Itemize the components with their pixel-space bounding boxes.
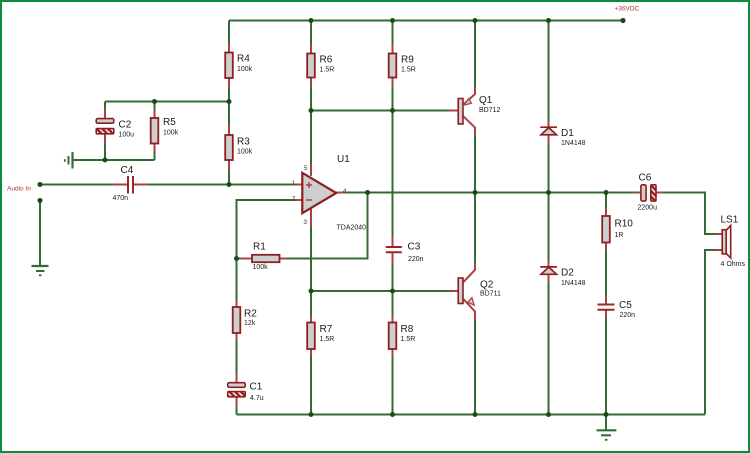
diode D2: [540, 267, 557, 274]
wire D2 to bottom rail: [548, 283, 550, 415]
wire column R6 upper: [310, 21, 312, 45]
wire Q1 base line: [311, 110, 450, 112]
svg-text:R3: R3: [237, 137, 250, 148]
node bottom rail D2 junction: [546, 412, 551, 417]
wire column R9 upper: [392, 21, 394, 45]
svg-text:1.5R: 1.5R: [320, 336, 335, 343]
wire column R4-R3 middle: [228, 88, 230, 125]
wire ground stub bottom: [605, 415, 607, 430]
svg-text:TDA2040: TDA2040: [337, 225, 367, 232]
svg-text:Q1: Q1: [479, 95, 493, 106]
wire input ground drop: [39, 201, 41, 266]
resistor R6 body: [307, 54, 315, 78]
svg-text:4 Ohms: 4 Ohms: [721, 261, 746, 268]
wire input line C4 to op-amp pin1: [147, 184, 295, 186]
svg-text:Q2: Q2: [480, 280, 494, 291]
resistor R9 pin stubs: [392, 44, 394, 87]
wire feedback R1 to output: [287, 193, 368, 259]
svg-text:D2: D2: [561, 268, 574, 279]
resistor R1 pin stubs: [241, 258, 287, 260]
svg-text:R10: R10: [615, 219, 634, 230]
node R1 R2 junction: [234, 256, 239, 261]
resistor R8 body: [389, 323, 397, 350]
svg-text:1.5R: 1.5R: [401, 336, 416, 343]
svg-text:C4: C4: [121, 165, 134, 176]
svg-text:C6: C6: [639, 173, 652, 184]
node bottom rail Q2 junction: [473, 412, 478, 417]
wire R1 left sliver: [237, 258, 242, 260]
node top rail R6 junction: [309, 18, 314, 23]
resistor R3 body: [225, 135, 233, 160]
capacitor C6 left plate: [641, 185, 646, 201]
node output R10 junction: [604, 190, 609, 195]
svg-text:R5: R5: [163, 117, 176, 128]
svg-text:2: 2: [292, 196, 296, 203]
wire Q2 emitter to bottom rail: [474, 320, 476, 415]
diode D1: [540, 127, 557, 135]
svg-text:BD711: BD711: [480, 291, 501, 298]
capacitor C5 pin stubs: [605, 296, 607, 318]
svg-text:4.7u: 4.7u: [250, 395, 264, 402]
resistor R5 body: [151, 118, 159, 144]
resistor R5 pin stubs: [154, 110, 156, 153]
resistor R1 body: [252, 255, 280, 262]
svg-text:220n: 220n: [408, 256, 424, 263]
svg-text:C5: C5: [619, 300, 632, 311]
svg-text:C1: C1: [250, 382, 263, 393]
wire R2 column upper: [236, 259, 238, 300]
wire R9 bottom to C3: [392, 87, 394, 236]
wire Q2 base line: [311, 290, 450, 292]
svg-text:R9: R9: [401, 55, 414, 66]
node R5 top junction: [152, 99, 157, 104]
capacitor C4 plates: [128, 176, 133, 194]
wire ground line to C2: [73, 159, 155, 161]
svg-text:R8: R8: [401, 324, 414, 335]
resistor R4 body: [225, 53, 233, 79]
ground C2 rotated: [71, 152, 73, 169]
svg-text:LS1: LS1: [721, 215, 739, 226]
wire column R3 lower: [228, 170, 230, 185]
svg-text:U1: U1: [337, 154, 350, 165]
speaker LS1 bar: [722, 230, 726, 254]
capacitor C6 right hatched plate: [651, 185, 656, 201]
svg-text:1: 1: [292, 180, 296, 187]
svg-text:2200u: 2200u: [638, 205, 658, 212]
node C2 ground junction: [103, 158, 108, 163]
svg-text:R4: R4: [237, 54, 250, 65]
svg-text:C2: C2: [119, 120, 132, 131]
svg-text:D1: D1: [561, 128, 574, 139]
node R4 R3 R5 junction: [227, 99, 232, 104]
transistor Q2 emitter arrow: [468, 298, 475, 306]
node output D1 junction: [546, 190, 551, 195]
capacitor C3 plates: [386, 247, 402, 252]
wire op-amp pin2 to R2 top: [237, 200, 295, 259]
ground input connector: [32, 265, 49, 267]
resistor R2 pin stubs: [236, 300, 238, 342]
svg-text:R1: R1: [253, 242, 266, 253]
capacitor C1 bottom hatched plate: [228, 392, 246, 397]
svg-text:BD712: BD712: [479, 107, 501, 114]
svg-text:5: 5: [304, 165, 308, 172]
transistor Q1 base bar: [458, 99, 463, 125]
svg-text:100k: 100k: [253, 264, 269, 271]
wire D1 to output line: [548, 144, 550, 193]
svg-text:Audio In: Audio In: [7, 186, 31, 193]
transistor Q1 pin stubs: [450, 88, 476, 135]
resistor R7 pin stubs: [310, 315, 312, 358]
wire output to R10: [605, 193, 607, 208]
svg-text:100u: 100u: [119, 132, 135, 139]
speaker LS1 horn: [726, 225, 731, 258]
capacitor C1 pin stubs: [236, 374, 238, 407]
resistor R8 pin stubs: [392, 315, 394, 358]
node output Q1 junction: [473, 190, 478, 195]
op-amp U1 minus sign: [306, 199, 312, 201]
capacitor C6 pin stubs: [633, 192, 663, 194]
wire C5 to bottom rail: [605, 318, 607, 415]
svg-text:1.5R: 1.5R: [320, 67, 335, 74]
svg-text:220n: 220n: [620, 312, 636, 319]
node bottom rail R7 junction: [309, 412, 314, 417]
svg-text:1N4148: 1N4148: [561, 140, 586, 147]
wire op-amp pin3 down to Q2 base line and R7: [310, 227, 312, 315]
node R3 input junction: [227, 182, 232, 187]
capacitor C2 bottom hatched plate: [96, 129, 114, 134]
wire C1 to bottom rail: [236, 407, 238, 415]
svg-text:470n: 470n: [113, 195, 129, 202]
speaker LS1 pin stubs: [715, 234, 722, 250]
node pin5 base line junction: [309, 108, 314, 113]
wire C2 bottom: [104, 144, 106, 160]
transistor Q2 pin stubs: [450, 263, 476, 320]
svg-text:100k: 100k: [237, 149, 253, 156]
node top rail R9 junction: [390, 18, 395, 23]
transistor Q1 emitter arrow: [464, 99, 472, 106]
capacitor C2 top plate: [96, 119, 114, 124]
svg-text:4: 4: [343, 188, 347, 195]
capacitor C5 plates: [598, 305, 615, 310]
resistor R4 pin stubs: [228, 43, 230, 88]
node audio ground terminal: [38, 198, 43, 203]
diode D2 pin stubs: [548, 260, 550, 284]
svg-text:+36VDC: +36VDC: [615, 6, 640, 13]
resistor R3 pin stubs: [228, 125, 230, 170]
wire C2 R5 top line: [105, 101, 229, 103]
node +36VDC terminal: [620, 18, 625, 23]
wire top rail +36VDC: [229, 20, 623, 22]
svg-text:12k: 12k: [244, 320, 256, 327]
svg-text:3: 3: [303, 219, 307, 226]
node top rail Q1 junction: [473, 18, 478, 23]
wire C2 top stub: [104, 102, 106, 109]
svg-text:1R: 1R: [615, 232, 624, 239]
capacitor C4 pin stubs: [113, 184, 147, 186]
capacitor C1 top plate: [228, 383, 246, 388]
wire Q1 collector to output line: [474, 135, 476, 264]
wire R8 bottom to rail: [392, 358, 394, 415]
svg-text:1N4148: 1N4148: [561, 280, 586, 287]
node audio input terminal: [38, 182, 43, 187]
wire bottom rail: [237, 414, 706, 416]
capacitor C2 pin stubs: [104, 109, 106, 145]
capacitor C3 pin stubs: [392, 236, 394, 264]
transistor Q2 base bar: [458, 278, 463, 304]
svg-text:1.5R: 1.5R: [401, 67, 416, 74]
resistor R7 body: [307, 323, 315, 350]
node bottom rail ground junction: [604, 412, 609, 417]
node C3 base2 junction: [390, 289, 395, 294]
op-amp U1 triangle: [302, 173, 336, 213]
svg-text:R7: R7: [320, 324, 333, 335]
svg-text:100k: 100k: [237, 66, 253, 73]
node pin3 R7 junction: [309, 289, 314, 294]
resistor R10 pin stubs: [605, 208, 607, 251]
wire R6 bottom to op-amp pin5 node: [310, 87, 312, 164]
wire R7 bottom to rail: [310, 357, 312, 415]
op-amp U1 plus sign: [306, 182, 312, 188]
node top rail D1 junction: [546, 18, 551, 23]
wire Q1 emitter column from rail: [474, 21, 476, 88]
node bottom rail R8 junction: [390, 412, 395, 417]
wire output line: [345, 192, 633, 194]
wire output line to D2: [548, 193, 550, 260]
wire column R4 upper: [228, 21, 230, 44]
resistor R2 body: [233, 307, 241, 333]
diode D1 pin stubs: [548, 120, 550, 144]
resistor R9 body: [389, 54, 397, 78]
op-amp U1 pin stubs: [295, 164, 346, 227]
wire output after C6 to speaker top: [663, 193, 715, 235]
svg-text:R2: R2: [244, 309, 257, 320]
resistor R10 body: [602, 216, 610, 243]
wire column D1 upper: [548, 21, 550, 121]
svg-text:100k: 100k: [163, 130, 179, 137]
node output feedback junction: [365, 190, 370, 195]
svg-text:R6: R6: [320, 55, 333, 66]
wire speaker bottom return: [705, 250, 715, 415]
wire R5 bottom corner: [154, 152, 156, 160]
wire input line left of C4: [40, 184, 113, 186]
ground bottom rail: [597, 429, 617, 431]
wire R2 to C1: [236, 342, 238, 374]
wire C3 bottom to Q2 base line: [392, 264, 394, 315]
svg-text:C3: C3: [408, 242, 421, 253]
resistor R6 pin stubs: [310, 44, 312, 87]
node R9 base line junction: [390, 108, 395, 113]
wire R5 top: [154, 102, 156, 110]
wire R10 to C5: [605, 250, 607, 296]
